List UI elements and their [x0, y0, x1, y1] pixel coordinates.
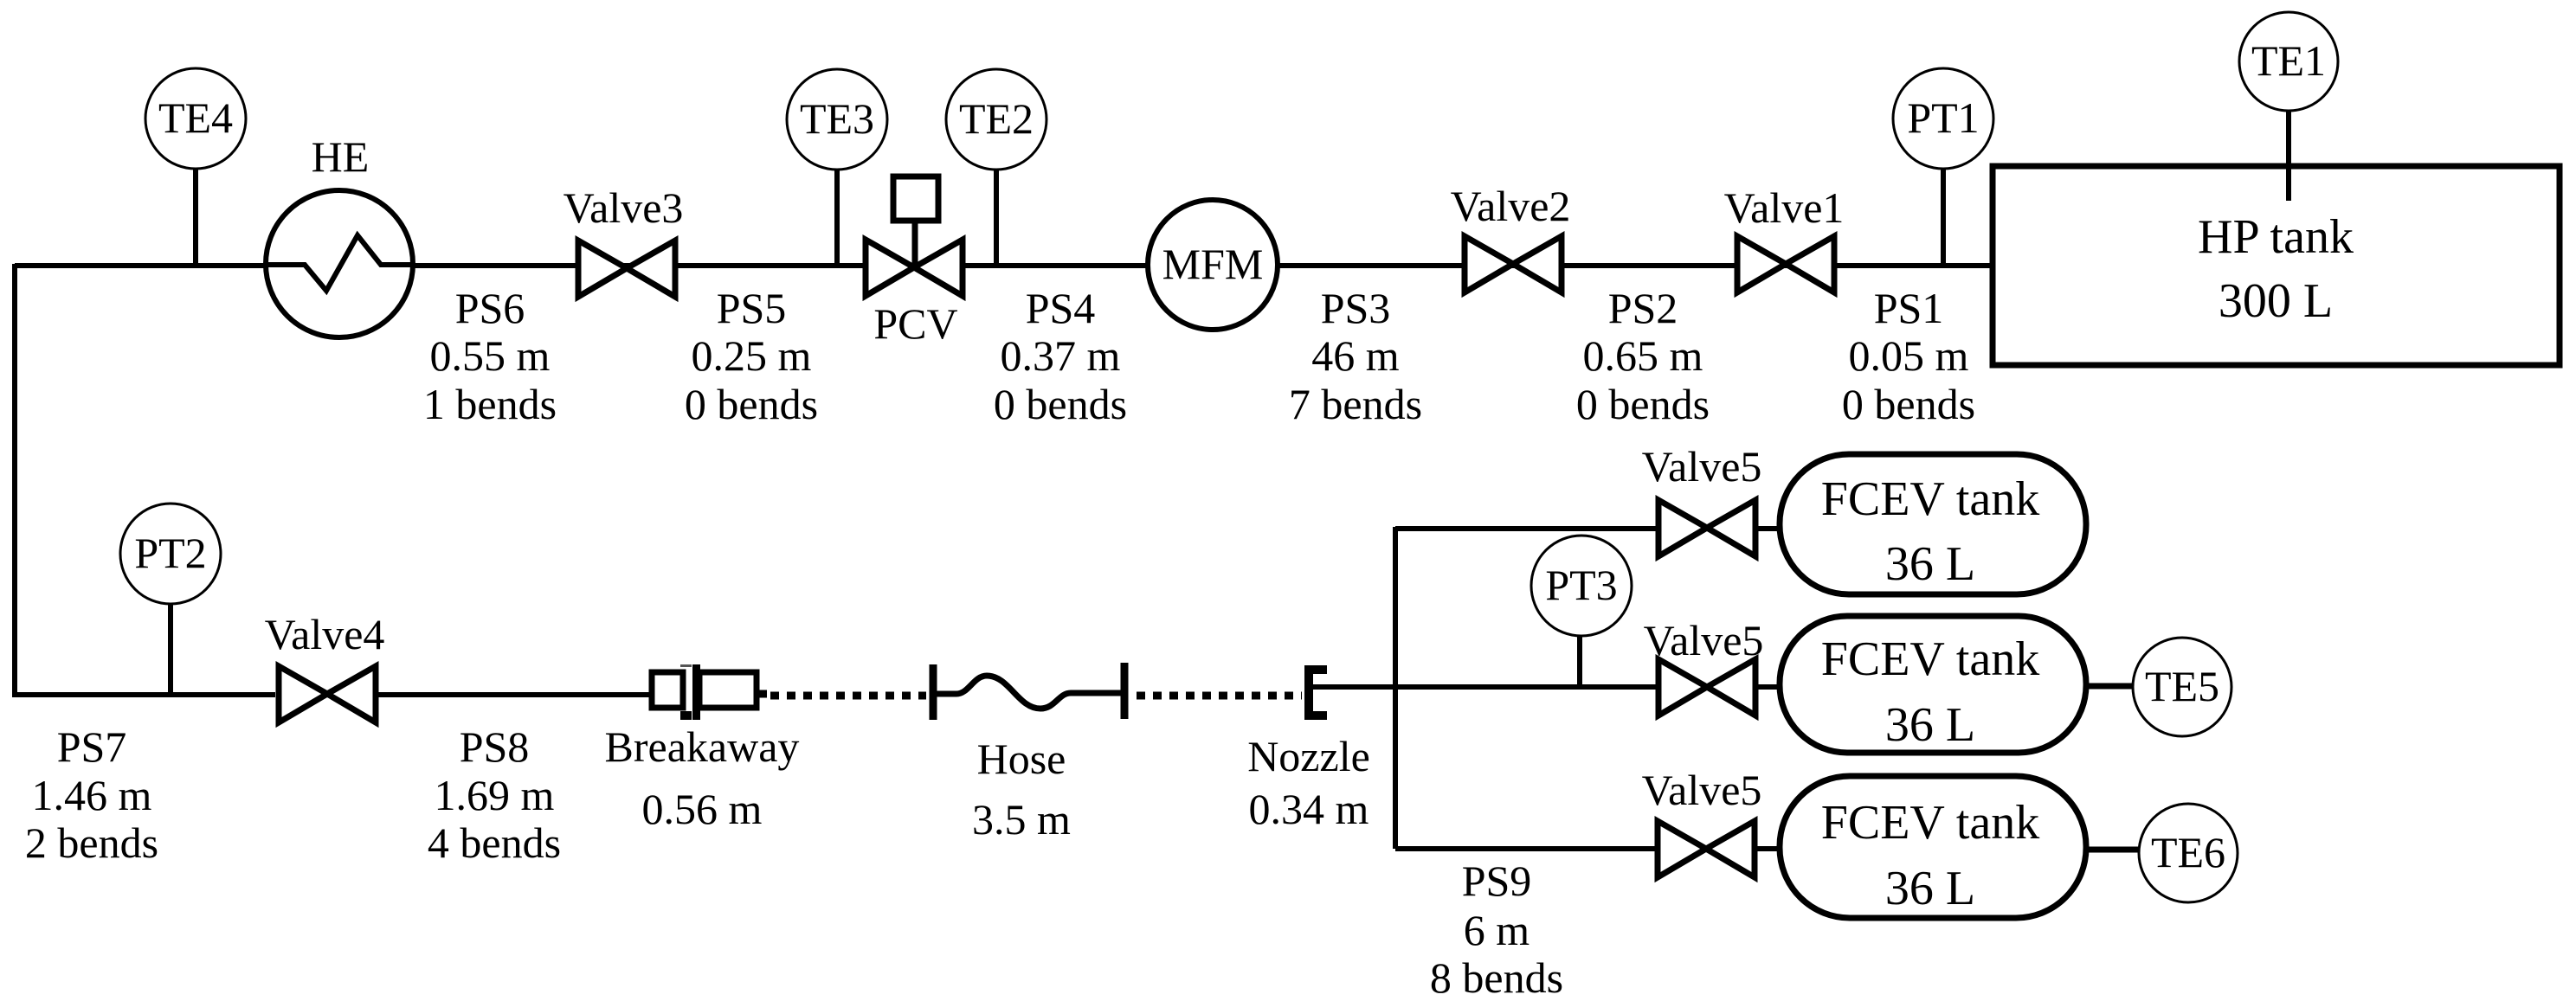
instrument TE3: [787, 69, 887, 264]
mass flow meter MFM: [1148, 200, 1278, 330]
wire nozzle to middle branch and Valve5 (middle): [1313, 684, 1658, 690]
label PS6: [423, 284, 557, 428]
valve Valve5 bottom: [1642, 766, 1781, 877]
instrument PT3: [1531, 536, 1632, 685]
wire dotted segment breakaway to hose: [770, 692, 926, 700]
svg-text:HP tank: HP tank: [2198, 210, 2354, 264]
svg-text:TE2: TE2: [959, 94, 1034, 143]
label PS4: [994, 284, 1127, 428]
svg-text:Valve2: Valve2: [1451, 182, 1571, 230]
label PS5: [685, 284, 818, 428]
control valve PCV with actuator: [866, 176, 963, 348]
breakaway coupling: [652, 664, 767, 720]
svg-text:Valve1: Valve1: [1724, 183, 1845, 232]
instrument TE2: [946, 69, 1046, 264]
svg-text:PS8: PS8: [460, 722, 530, 771]
valve Valve4: [265, 610, 385, 722]
valve Valve1: [1724, 183, 1845, 292]
svg-text:1.46 m: 1.46 m: [32, 771, 152, 819]
svg-text:36 L: 36 L: [1885, 537, 1975, 591]
svg-text:0 bends: 0 bends: [1842, 380, 1975, 428]
svg-text:4 bends: 4 bends: [428, 818, 561, 867]
svg-text:0 bends: 0 bends: [685, 380, 818, 428]
svg-text:3.5 m: 3.5 m: [972, 795, 1071, 844]
svg-text:0.25 m: 0.25 m: [692, 331, 812, 380]
svg-text:Nozzle: Nozzle: [1247, 732, 1370, 780]
label PS2: [1576, 284, 1710, 428]
wire bottom branch to Valve5 (bottom): [1395, 846, 1656, 851]
label Breakaway: [605, 722, 800, 833]
svg-text:0.37 m: 0.37 m: [1001, 331, 1121, 380]
svg-text:0.56 m: 0.56 m: [642, 785, 763, 833]
svg-text:PS5: PS5: [717, 284, 787, 332]
svg-text:Valve5: Valve5: [1642, 442, 1762, 491]
svg-text:0.65 m: 0.65 m: [1583, 331, 1703, 380]
heat exchanger HE: [266, 132, 413, 337]
svg-text:PT1: PT1: [1907, 93, 1979, 142]
instrument PT2: [120, 504, 221, 693]
svg-text:PS3: PS3: [1321, 284, 1391, 332]
svg-text:PT3: PT3: [1545, 561, 1617, 609]
valve Valve3: [563, 183, 684, 297]
svg-text:1.69 m: 1.69 m: [435, 771, 555, 819]
FCEV tank 1 (top, 36 L): [1780, 454, 2086, 594]
svg-text:PCV: PCV: [873, 299, 957, 348]
svg-text:1 bends: 1 bends: [423, 380, 557, 428]
svg-text:36 L: 36 L: [1885, 698, 1975, 752]
svg-text:46 m: 46 m: [1311, 331, 1400, 380]
svg-text:8 bends: 8 bends: [1430, 953, 1563, 1001]
svg-text:PS2: PS2: [1608, 284, 1678, 332]
wire top branch to Valve5 (top): [1395, 526, 1658, 531]
svg-text:HE: HE: [312, 132, 370, 181]
svg-text:7 bends: 7 bends: [1289, 380, 1422, 428]
svg-text:PS1: PS1: [1874, 284, 1944, 332]
svg-text:36 L: 36 L: [1885, 862, 1975, 915]
label PS8: [428, 722, 561, 867]
valve Valve5 middle: [1644, 616, 1781, 715]
instrument TE4: [145, 68, 246, 264]
svg-text:PS4: PS4: [1026, 284, 1096, 332]
svg-text:TE3: TE3: [800, 94, 874, 143]
svg-text:TE4: TE4: [158, 93, 233, 142]
svg-text:TE6: TE6: [2151, 828, 2225, 876]
svg-text:6 m: 6 m: [1464, 906, 1530, 954]
svg-text:PS7: PS7: [57, 722, 127, 771]
wire left vertical return line: [12, 264, 17, 695]
wire dotted segment hose to nozzle: [1137, 692, 1302, 700]
svg-text:PS9: PS9: [1462, 857, 1532, 905]
hose with end ticks: [933, 663, 1124, 720]
wire bottom line from left riser to Valve4: [12, 692, 275, 697]
svg-text:TE1: TE1: [2251, 36, 2326, 85]
nozzle bracket: [1309, 670, 1327, 715]
svg-text:Valve3: Valve3: [563, 183, 684, 232]
svg-text:PT2: PT2: [134, 529, 206, 577]
svg-text:Valve5: Valve5: [1644, 616, 1764, 664]
valve Valve5 top: [1642, 442, 1781, 556]
svg-text:FCEV tank: FCEV tank: [1821, 472, 2040, 526]
valve Valve2: [1451, 182, 1571, 292]
svg-text:TE5: TE5: [2145, 662, 2219, 710]
label Nozzle: [1247, 732, 1370, 833]
instrument TE1: [2239, 12, 2338, 201]
label PS9: [1430, 857, 1563, 1001]
HP tank 300 L: [1993, 166, 2560, 365]
FCEV tank 3 (bottom, 36 L): [1780, 776, 2086, 918]
label PS1: [1842, 284, 1975, 428]
wire Valve4 to Breakaway: [375, 692, 654, 697]
svg-text:0 bends: 0 bends: [1576, 380, 1710, 428]
svg-text:FCEV tank: FCEV tank: [1821, 796, 2040, 850]
svg-text:Valve4: Valve4: [265, 610, 385, 658]
svg-text:2 bends: 2 bends: [25, 818, 158, 867]
svg-text:PS6: PS6: [455, 284, 525, 332]
svg-text:Breakaway: Breakaway: [605, 722, 800, 771]
svg-text:0 bends: 0 bends: [994, 380, 1127, 428]
svg-text:300 L: 300 L: [2219, 274, 2333, 328]
svg-text:Hose: Hose: [977, 735, 1066, 783]
svg-text:MFM: MFM: [1162, 240, 1264, 288]
FCEV tank 2 (middle, 36 L): [1780, 616, 2086, 753]
svg-text:0.55 m: 0.55 m: [430, 331, 551, 380]
instrument TE6: [2086, 804, 2238, 902]
label PS7: [25, 722, 158, 867]
svg-text:0.05 m: 0.05 m: [1849, 331, 1969, 380]
instrument PT1: [1893, 68, 1993, 264]
svg-text:FCEV tank: FCEV tank: [1821, 632, 2040, 686]
wire manifold riser: [1393, 527, 1398, 849]
svg-text:0.34 m: 0.34 m: [1249, 785, 1369, 833]
label Hose: [972, 735, 1071, 844]
svg-text:Valve5: Valve5: [1642, 766, 1762, 814]
instrument TE5: [2086, 638, 2231, 736]
wire main top pipeline from left riser to HP tank: [15, 263, 1993, 268]
label PS3: [1289, 284, 1422, 428]
